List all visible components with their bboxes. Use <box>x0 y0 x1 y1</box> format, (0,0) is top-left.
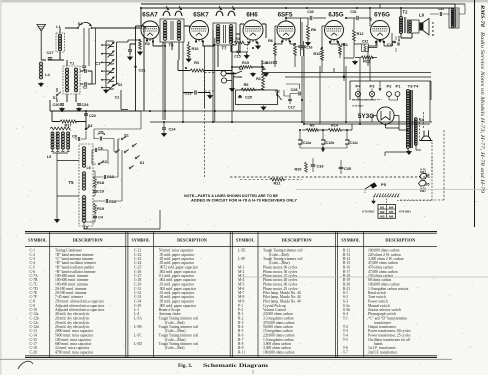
svg-text:T1: T1 <box>70 62 74 66</box>
resistor R19 <box>94 203 97 213</box>
svg-text:NOTE—PARTS & LINES SHOWN DOTTE: NOTE—PARTS & LINES SHOWN DOTTED ARE TO B… <box>184 194 279 198</box>
capacitor C23 <box>195 90 196 94</box>
ground R8 <box>306 41 311 46</box>
svg-text:6J5G: 6J5G <box>328 12 343 19</box>
wire 6SK7 grid <box>184 26 190 28</box>
svg-text:C33: C33 <box>317 165 324 169</box>
svg-text:P1: P1 <box>396 84 402 89</box>
page top edge shadow <box>0 0 488 2</box>
capacitor C8 <box>78 137 79 141</box>
svg-text:P5: P5 <box>381 182 387 187</box>
capacitor C29 <box>273 62 277 63</box>
svg-text:R6: R6 <box>268 39 273 43</box>
svg-text:C1: C1 <box>115 96 120 100</box>
power box outline <box>350 81 431 100</box>
wire filter row <box>302 124 352 130</box>
capacitor C13 <box>104 175 105 179</box>
6Y6G cathode arrow <box>378 40 382 43</box>
inductor L5 bank <box>51 132 54 135</box>
wire 5Y3G leads <box>372 116 408 131</box>
capacitor C28 <box>299 92 300 96</box>
inductor L4 <box>39 62 42 65</box>
svg-text:2nd I.F. transformer: 2nd I.F. transformer <box>368 351 398 355</box>
connector hatch strip <box>374 194 399 197</box>
ground under C20 <box>60 107 65 112</box>
svg-text:SYMBOL: SYMBOL <box>341 238 360 243</box>
handwritten mark <box>18 361 33 369</box>
capacitor C6 <box>95 148 96 152</box>
ground under C34 <box>77 107 82 112</box>
svg-text:L5: L5 <box>47 155 51 159</box>
svg-text:C24: C24 <box>169 128 177 132</box>
transformer T1 <box>63 66 80 94</box>
tube V4 6SF5 <box>277 21 295 39</box>
svg-text:ONLY: ONLY <box>420 191 427 193</box>
resistor R5 <box>241 88 255 91</box>
svg-text:R18: R18 <box>97 181 104 185</box>
svg-text:C27: C27 <box>47 51 54 55</box>
svg-text:R5: R5 <box>244 83 249 87</box>
wire band switch web <box>75 111 141 164</box>
resistor R16 <box>187 44 190 57</box>
svg-text:H-78 ONLY: H-78 ONLY <box>352 106 364 108</box>
capacitor C34 <box>77 104 81 105</box>
svg-text:L-5C: L-5C <box>134 334 142 338</box>
svg-text:Radio Service Notes on Models: Radio Service Notes on Models H-73, H-77… <box>479 31 485 194</box>
svg-text:C17: C17 <box>288 106 295 110</box>
wire T7 pins <box>218 34 240 67</box>
svg-text:R3: R3 <box>194 61 199 65</box>
svg-text:T6: T6 <box>169 43 175 48</box>
svg-text:R13: R13 <box>363 60 370 64</box>
svg-text:L9: L9 <box>419 13 425 18</box>
svg-text:R14: R14 <box>331 124 339 128</box>
svg-text:R16: R16 <box>192 47 199 51</box>
capacitor C35 <box>339 167 344 168</box>
scan crease upper <box>296 189 488 191</box>
resistor R17 <box>60 120 76 123</box>
transformer T3-T4 winding <box>406 90 409 93</box>
svg-text:T3-T4: T3-T4 <box>408 84 419 89</box>
svg-text:SYMBOL: SYMBOL <box>131 238 150 243</box>
wire T5 cross links <box>57 161 79 197</box>
wire 6H6 plate caps <box>240 24 266 38</box>
transformer T2 <box>399 16 402 19</box>
svg-text:C8: C8 <box>72 135 77 139</box>
pilot lamp P4 <box>355 91 360 96</box>
margin rule <box>474 0 476 227</box>
wire hbus mid <box>141 111 430 122</box>
svg-text:S3: S3 <box>419 118 424 122</box>
capacitor C22 <box>84 114 88 115</box>
svg-text:C5: C5 <box>99 131 104 135</box>
capacitor C2 <box>85 82 86 86</box>
tube V3 6H6 <box>243 20 263 40</box>
svg-text:C12c: C12c <box>350 141 358 145</box>
wire T1 secondary <box>80 71 92 84</box>
svg-text:C35: C35 <box>344 167 351 171</box>
plug P2 <box>387 92 392 97</box>
svg-text:L-5A: L-5A <box>134 317 142 321</box>
svg-text:R20: R20 <box>295 168 302 172</box>
wire filter gnd bus <box>300 148 347 152</box>
dash-dot heater line <box>352 99 383 101</box>
AC plug <box>422 136 431 141</box>
wire vbus c <box>232 67 234 122</box>
dashed vertical H78 <box>205 72 216 177</box>
junction C21 <box>134 66 136 68</box>
svg-text:S1: S1 <box>124 134 129 138</box>
svg-text:R-11: R-11 <box>238 351 245 355</box>
wire R16 <box>188 42 190 45</box>
wire 6SA7 grid <box>136 8 147 111</box>
dashed mod line 6H6 <box>247 38 249 57</box>
wire vbus d <box>302 46 320 124</box>
wire S1 arc <box>78 22 92 27</box>
capacitor C17 <box>288 99 292 100</box>
rectifier V7 5Y3G <box>377 107 394 124</box>
junction dots <box>146 39 148 41</box>
wire T1 bottom drop <box>57 52 76 102</box>
svg-text:S1: S1 <box>140 161 145 165</box>
wire choke <box>430 4 465 14</box>
wire right frame <box>430 4 465 122</box>
electrolytic C12a <box>298 140 302 144</box>
svg-text:C25: C25 <box>245 96 252 100</box>
transformer secondary <box>414 118 417 121</box>
tube V2 6SK7 <box>190 21 209 40</box>
svg-text:R17: R17 <box>65 124 72 128</box>
capacitor C16 <box>302 46 306 47</box>
svg-text:T-1: T-1 <box>343 317 348 321</box>
svg-text:6H6: 6H6 <box>246 12 258 19</box>
svg-text:C2: C2 <box>83 86 88 90</box>
svg-text:S3: S3 <box>102 160 107 164</box>
junction audio bus <box>343 76 346 79</box>
capacitor C4 <box>93 216 97 217</box>
resistor above L5 <box>50 127 70 130</box>
svg-text:P3: P3 <box>370 84 376 89</box>
svg-text:H-78: H-78 <box>421 170 427 172</box>
capacitor C15 <box>236 51 240 53</box>
wire T5 right web <box>84 140 122 226</box>
wire motor leads <box>386 198 388 203</box>
wire detector out <box>232 46 262 90</box>
plug P1 <box>395 92 400 97</box>
volume control box <box>236 90 278 105</box>
svg-text:C7: C7 <box>95 61 101 66</box>
svg-text:“D” band oscillator trimmer: “D” band oscillator trimmer <box>55 260 97 265</box>
svg-text:T7: T7 <box>222 46 228 51</box>
resistor R7 <box>294 44 297 55</box>
tuning condenser C7 gang <box>106 44 110 46</box>
resistor R1 <box>262 70 265 90</box>
motor set labels <box>378 205 396 219</box>
electrolytic C12b <box>321 140 325 144</box>
capacitor C32 <box>362 44 369 52</box>
ground in volume box <box>261 106 266 111</box>
svg-text:R19: R19 <box>97 207 104 211</box>
svg-text:R2: R2 <box>145 42 150 46</box>
svg-text:S3: S3 <box>118 83 122 87</box>
choke output right <box>449 8 459 28</box>
wire 6SF5 web <box>264 26 296 68</box>
resistor R15 <box>240 66 252 69</box>
svg-text:C14: C14 <box>109 200 117 204</box>
svg-text:C34: C34 <box>82 103 90 107</box>
svg-text:C18: C18 <box>387 43 393 47</box>
wire 6SA7 plate <box>153 42 163 47</box>
inductor L1 Beam-a-Scope <box>56 33 65 52</box>
svg-text:S3: S3 <box>239 67 244 71</box>
svg-text:T5: T5 <box>69 180 75 185</box>
svg-text:M6: M6 <box>389 215 394 219</box>
svg-text:6SA7: 6SA7 <box>142 12 158 19</box>
transformer T6 <box>160 19 184 42</box>
wire R3 run <box>178 60 232 71</box>
switch S1 selector contacts <box>115 151 117 153</box>
pilot lamp P3 <box>369 91 374 96</box>
resistor R9 <box>306 129 318 132</box>
wire grid drops <box>84 28 96 84</box>
svg-text:R8: R8 <box>311 28 316 32</box>
capacitor C25 <box>238 96 242 97</box>
wire T5 bottom run <box>84 210 160 229</box>
svg-text:DESCRIPTION: DESCRIPTION <box>73 238 104 243</box>
tube V1 6SA7 <box>141 21 159 39</box>
svg-text:H-79 ONLY: H-79 ONLY <box>399 211 412 214</box>
svg-text:L6: L6 <box>86 166 90 170</box>
svg-text:DESCRIPTION: DESCRIPTION <box>177 238 208 243</box>
wire R17 leads <box>52 111 86 130</box>
switch S3 phono <box>236 71 242 74</box>
svg-text:C20: C20 <box>53 103 60 107</box>
resistor R3 <box>190 69 204 72</box>
capacitor 6SA7 cathode <box>128 50 132 51</box>
capacitor C18 <box>392 41 396 42</box>
dashed mid line <box>230 176 432 178</box>
svg-text:P2: P2 <box>387 84 393 89</box>
svg-text:Schematic Diagram: Schematic Diagram <box>203 363 269 369</box>
parts list table <box>25 232 437 234</box>
wire volume web <box>255 67 302 104</box>
ground 6H6 right <box>256 45 261 50</box>
wire C23 <box>183 93 210 95</box>
wire bottom node <box>50 100 141 111</box>
svg-text:“C” and “D” band antenna: “C” and “D” band antenna <box>368 316 407 321</box>
svg-text:S2: S2 <box>275 90 280 94</box>
capacitor C31 <box>440 12 441 16</box>
resistor R8 <box>307 25 310 39</box>
wire C7 spine <box>106 41 117 87</box>
T7 top trimmer arcs <box>216 11 235 16</box>
switch S1 mid <box>56 94 58 96</box>
wire phono shield <box>226 73 236 75</box>
svg-text:R12: R12 <box>357 32 364 36</box>
svg-text:H-78 ONLY: H-78 ONLY <box>362 211 375 214</box>
L5 bottom arrows <box>51 149 54 152</box>
transformer T7 <box>213 23 236 45</box>
resistor R18 <box>94 177 97 187</box>
svg-text:R1: R1 <box>256 77 261 81</box>
electrolytic C12c <box>345 140 349 144</box>
svg-text:4790 mmf. mica capacitor: 4790 mmf. mica capacitor <box>55 351 94 355</box>
svg-text:R9: R9 <box>310 124 315 128</box>
svg-text:C36: C36 <box>397 36 401 42</box>
phono jack P1 terminal a <box>221 71 226 76</box>
phono jack P1 terminal b <box>221 78 226 83</box>
wire T3 bottom <box>385 144 421 156</box>
svg-text:(Code—Red): (Code—Red) <box>165 346 185 350</box>
svg-text:“B” band oscillator padder: “B” band oscillator padder <box>55 265 95 270</box>
wire top bus 1 <box>141 7 455 9</box>
svg-text:C12b: C12b <box>326 141 334 145</box>
capacitor C24 <box>162 128 166 129</box>
svg-text:5: 5 <box>252 371 254 375</box>
ground under L4 <box>39 82 44 87</box>
svg-text:C31: C31 <box>350 10 357 14</box>
svg-text:C19: C19 <box>97 190 104 194</box>
speaker frame <box>408 20 420 33</box>
dashed plug wires <box>424 112 433 175</box>
capacitor C5 <box>100 137 101 141</box>
svg-text:M4: M4 <box>389 205 394 209</box>
resistor R6 <box>274 44 277 55</box>
capacitor C3 <box>85 69 86 73</box>
ground det <box>251 72 256 77</box>
ground T3 <box>407 150 412 155</box>
svg-text:DESCRIPTION: DESCRIPTION <box>385 238 416 243</box>
resistor R2 <box>139 39 142 49</box>
wire L1 top bus <box>60 28 141 33</box>
svg-text:C22: C22 <box>89 114 96 118</box>
svg-text:R10: R10 <box>314 52 321 56</box>
svg-text:L-5F: L-5F <box>238 257 245 261</box>
switch S4 <box>420 173 428 179</box>
wire C30 node <box>286 18 326 56</box>
wire vbus a <box>163 42 205 122</box>
wire T6 pins down <box>165 42 179 120</box>
antenna <box>37 25 46 61</box>
svg-text:C31: C31 <box>438 7 444 11</box>
svg-text:RMS-78: RMS-78 <box>479 4 485 28</box>
switch S3 band lower <box>98 163 100 165</box>
tube V5 6J5G <box>325 21 344 40</box>
svg-text:C16: C16 <box>306 46 313 50</box>
resistor R11 <box>339 44 342 54</box>
speaker L9 <box>420 23 424 31</box>
svg-text:S5: S5 <box>425 183 429 187</box>
ground C15 node <box>244 54 249 59</box>
svg-text:DESCRIPTION: DESCRIPTION <box>282 238 313 243</box>
wire 6Y6G web <box>368 4 392 66</box>
svg-text:L-5D: L-5D <box>134 342 142 346</box>
resistor R14 <box>328 129 341 132</box>
switch S5 <box>419 180 427 186</box>
page left edge shadow <box>0 0 2 375</box>
transformer T5 <box>79 144 93 226</box>
svg-text:L-5B: L-5B <box>134 325 142 329</box>
svg-text:C-20: C-20 <box>30 351 37 355</box>
capacitor C20 <box>60 104 64 105</box>
capacitor C33 <box>311 165 316 166</box>
switch S1 band <box>121 138 123 140</box>
wire audio bus upper <box>262 72 431 74</box>
svg-text:M3: M3 <box>380 215 385 219</box>
wire pilot drops <box>352 81 398 100</box>
svg-text:P4: P4 <box>356 84 362 89</box>
svg-text:M5: M5 <box>389 210 394 214</box>
svg-text:Fig. 3.: Fig. 3. <box>178 363 193 369</box>
svg-text:C15: C15 <box>234 55 240 59</box>
svg-text:C26: C26 <box>262 61 268 65</box>
capacitor C31 coupling <box>357 16 358 20</box>
ground R2 <box>138 51 143 56</box>
resistor R21 <box>270 178 284 181</box>
switch S3 bandswitch top <box>85 128 87 130</box>
capacitor C26 <box>262 68 266 69</box>
svg-text:S3: S3 <box>88 124 93 128</box>
wire T2 primary <box>396 8 412 38</box>
capacitor C30 <box>310 16 312 20</box>
resistor R10 <box>321 48 324 60</box>
wire antenna bottom run <box>41 52 64 60</box>
capacitor C14 <box>106 199 107 203</box>
wire L5 bottom bus <box>53 153 69 218</box>
wire R21 leads <box>240 179 302 181</box>
wire 6SK7 plate <box>203 42 214 47</box>
svg-text:R4: R4 <box>235 37 240 41</box>
wire vbus b <box>213 30 215 122</box>
svg-text:6Y6G: 6Y6G <box>374 12 390 19</box>
svg-text:C21: C21 <box>139 69 146 73</box>
tube V6 6Y6G <box>371 21 390 40</box>
resistor R12 <box>353 30 356 41</box>
svg-text:PHONO: PHONO <box>234 77 243 79</box>
ground under C7 <box>104 89 109 94</box>
scan crease <box>240 276 488 278</box>
svg-text:C28: C28 <box>291 88 298 92</box>
resistor R13 <box>361 56 373 59</box>
ground R13 node <box>353 60 358 65</box>
ground L5 bus <box>55 218 60 223</box>
ground 6SF5 <box>264 72 269 77</box>
svg-text:ADDED IN CIRCUIT FOR H-78 & H-: ADDED IN CIRCUIT FOR H-78 & H-79 RECEIVE… <box>191 199 298 203</box>
svg-text:M2: M2 <box>380 210 385 214</box>
capacitor C27 <box>48 58 52 60</box>
wire right dashed frame <box>400 130 444 200</box>
svg-text:T2: T2 <box>403 10 409 15</box>
svg-text:SYMBOL: SYMBOL <box>28 238 47 243</box>
wire 6H6 cath <box>232 38 258 55</box>
svg-text:SYMBOL: SYMBOL <box>236 238 255 243</box>
svg-text:T-5: T-5 <box>343 338 348 342</box>
resistor R4 <box>234 41 244 44</box>
wire 6J5G web <box>322 18 377 73</box>
ground phono <box>230 87 235 92</box>
svg-text:L-5E: L-5E <box>238 249 246 253</box>
svg-text:T-7: T-7 <box>343 351 348 355</box>
wire top bus 2 <box>141 4 455 28</box>
svg-text:M1: M1 <box>380 205 385 209</box>
svg-text:R21: R21 <box>274 182 281 186</box>
svg-text:S1: S1 <box>78 22 83 26</box>
svg-text:C3: C3 <box>82 65 87 69</box>
wire vbus e <box>334 58 370 124</box>
capacitor C19 <box>93 191 97 192</box>
connector P5 <box>370 182 377 188</box>
T6 top trimmer arcs <box>163 11 182 16</box>
